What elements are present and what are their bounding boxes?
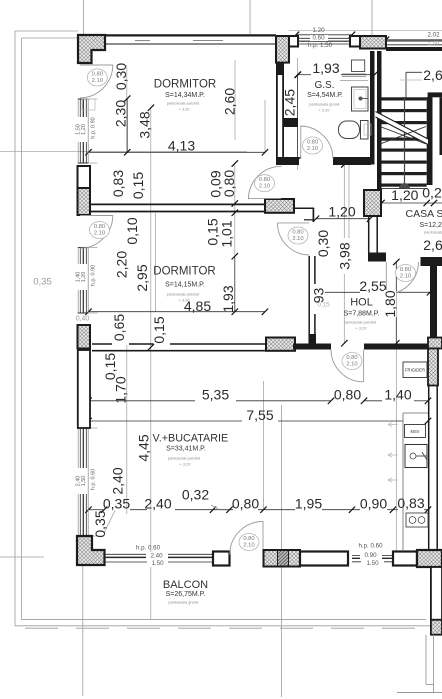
svg-text:0,2: 0,2 — [422, 184, 442, 200]
svg-text:2.10: 2.10 — [346, 361, 357, 367]
svg-text:2,6: 2,6 — [423, 237, 442, 253]
svg-text:0,32: 0,32 — [182, 487, 209, 503]
svg-text:0.80: 0.80 — [243, 536, 254, 542]
svg-text:2.10: 2.10 — [292, 236, 303, 242]
svg-text:1.50: 1.50 — [428, 41, 439, 47]
svg-text:pardoseala parchet: pardoseala parchet — [167, 293, 200, 297]
svg-text:S=12,25M.P.: S=12,25M.P. — [420, 222, 442, 229]
svg-text:S=7,88M.P.: S=7,88M.P. — [344, 311, 380, 318]
svg-text:DORMITOR: DORMITOR — [154, 79, 216, 91]
svg-text:S=4,54M.P.: S=4,54M.P. — [307, 92, 343, 99]
svg-text:2,45: 2,45 — [281, 89, 297, 116]
svg-text:0,10: 0,10 — [124, 217, 140, 244]
svg-text:h.p. 0.60: h.p. 0.60 — [91, 469, 97, 490]
svg-text:0,83: 0,83 — [397, 495, 424, 511]
svg-text:2.10: 2.10 — [243, 542, 254, 548]
svg-text:0,40: 0,40 — [76, 316, 90, 323]
svg-text:2.02: 2.02 — [427, 32, 440, 39]
svg-text:V.+BUCATARIE: V.+BUCATARIE — [153, 433, 229, 445]
svg-text:0.80: 0.80 — [346, 355, 357, 361]
svg-text:2.40: 2.40 — [150, 553, 163, 560]
svg-text:h.p. 0.60: h.p. 0.60 — [358, 543, 383, 550]
svg-text:2,40: 2,40 — [144, 496, 171, 512]
svg-text:+ 3.20: + 3.20 — [179, 108, 190, 112]
svg-text:2,40: 2,40 — [109, 467, 125, 494]
svg-text:2,6: 2,6 — [423, 67, 442, 83]
svg-text:1,20: 1,20 — [328, 204, 355, 220]
svg-text:h.p. 1.50: h.p. 1.50 — [308, 42, 333, 49]
svg-text:0,80: 0,80 — [221, 170, 237, 197]
svg-text:FRIGIDER: FRIGIDER — [405, 368, 425, 373]
svg-text:0,35: 0,35 — [92, 510, 108, 537]
svg-text:HOL: HOL — [350, 297, 373, 309]
svg-text:CASA SCARII: CASA SCARII — [406, 208, 442, 220]
svg-text:4,85: 4,85 — [184, 298, 211, 314]
svg-text:0.80: 0.80 — [400, 267, 411, 273]
svg-text:0,15: 0,15 — [151, 316, 167, 343]
svg-text:+ 3.20: + 3.20 — [356, 327, 367, 331]
svg-text:1,20: 1,20 — [81, 124, 87, 135]
svg-text:1,20: 1,20 — [81, 272, 87, 283]
svg-text:2,60: 2,60 — [222, 88, 238, 115]
svg-text:pardoseala parchet: pardoseala parchet — [344, 321, 377, 325]
svg-text:h.p. 0.60: h.p. 0.60 — [136, 545, 161, 552]
svg-text:0,65: 0,65 — [111, 314, 127, 341]
svg-text:2.10: 2.10 — [92, 78, 103, 84]
svg-text:1,93: 1,93 — [220, 285, 236, 312]
svg-text:+ 3.20: + 3.20 — [180, 463, 191, 467]
svg-text:0.60: 0.60 — [312, 35, 325, 42]
svg-text:1.50: 1.50 — [366, 560, 379, 567]
svg-text:3,98: 3,98 — [336, 242, 352, 269]
svg-text:0.80: 0.80 — [292, 229, 303, 235]
svg-text:0,35: 0,35 — [33, 277, 52, 288]
svg-text:1.20: 1.20 — [312, 27, 325, 34]
svg-text:1,80: 1,80 — [382, 290, 398, 317]
svg-text:1,40: 1,40 — [384, 387, 411, 403]
svg-text:0.80: 0.80 — [307, 139, 318, 145]
svg-text:0.80: 0.80 — [94, 224, 105, 230]
svg-text:0,90: 0,90 — [360, 496, 387, 512]
svg-text:2,20: 2,20 — [114, 251, 130, 278]
svg-text:2,95: 2,95 — [134, 264, 150, 291]
svg-text:1.50: 1.50 — [151, 560, 164, 567]
svg-text:0,15: 0,15 — [102, 353, 118, 380]
svg-text:0,83: 0,83 — [110, 170, 126, 197]
svg-text:0,80: 0,80 — [334, 387, 361, 403]
svg-text:S=14,34M.P.: S=14,34M.P. — [165, 92, 205, 99]
svg-text:pardoseala parchet: pardoseala parchet — [167, 102, 200, 106]
svg-text:0,35: 0,35 — [103, 496, 130, 512]
svg-text:1,93: 1,93 — [312, 60, 339, 76]
svg-text:DORMITOR: DORMITOR — [153, 266, 215, 278]
svg-text:3,48: 3,48 — [137, 111, 153, 138]
svg-text:pardoseala gresie: pardoseala gresie — [168, 601, 198, 605]
svg-text:0.80: 0.80 — [92, 71, 103, 77]
svg-text:BALCON: BALCON — [163, 579, 208, 591]
svg-text:h.p. 0.90: h.p. 0.90 — [91, 265, 97, 286]
svg-text:2.10: 2.10 — [94, 230, 105, 236]
svg-text:2.10: 2.10 — [400, 273, 411, 279]
svg-text:+ 3.20: + 3.20 — [319, 109, 330, 113]
svg-text:pardoseala gresie: pardoseala gresie — [424, 231, 442, 235]
svg-text:0.90: 0.90 — [364, 552, 377, 559]
svg-text:pardoseala gresie: pardoseala gresie — [309, 103, 339, 107]
svg-text:1,70: 1,70 — [113, 376, 129, 403]
svg-text:S=33,41M.P.: S=33,41M.P. — [166, 446, 206, 453]
svg-text:1,20: 1,20 — [391, 187, 418, 203]
svg-text:0,80: 0,80 — [232, 496, 259, 512]
svg-text:1,01: 1,01 — [219, 220, 235, 247]
svg-text:MSV: MSV — [410, 429, 419, 434]
svg-text:G.S.: G.S. — [314, 80, 334, 91]
svg-text:5,35: 5,35 — [202, 387, 229, 403]
svg-text:2.10: 2.10 — [307, 146, 318, 152]
svg-text:2.10: 2.10 — [259, 184, 270, 190]
svg-text:7,55: 7,55 — [246, 407, 273, 423]
svg-text:S=14,15M.P.: S=14,15M.P. — [165, 282, 205, 289]
svg-text:S=26,75M.P.: S=26,75M.P. — [166, 591, 206, 598]
svg-text:1,95: 1,95 — [295, 496, 322, 512]
svg-text:0,30: 0,30 — [315, 230, 331, 257]
svg-text:0,15: 0,15 — [130, 172, 146, 199]
svg-text:4,13: 4,13 — [168, 138, 195, 154]
svg-text:0,30: 0,30 — [113, 63, 129, 90]
svg-text:pardoseala parchet: pardoseala parchet — [168, 457, 201, 461]
svg-text:2,30: 2,30 — [113, 100, 129, 127]
svg-text:1,50: 1,50 — [81, 476, 87, 487]
svg-text:0,15: 0,15 — [317, 302, 330, 309]
svg-text:4,45: 4,45 — [135, 434, 151, 461]
svg-text:0.80: 0.80 — [259, 177, 270, 183]
svg-text:h.p. 0.90: h.p. 0.90 — [91, 117, 97, 138]
